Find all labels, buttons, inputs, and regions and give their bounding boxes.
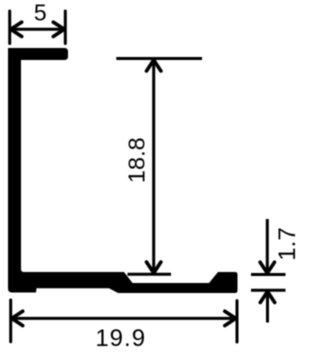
dim 1.7: bottom extension line	[251, 289, 286, 292]
dim 19.9: right extension line	[236, 301, 239, 342]
dim 18.8: top reference line	[116, 57, 202, 60]
dim 19.9: left extension line	[9, 300, 12, 342]
dim 5: dimension line	[11, 28, 65, 31]
dim 19.9: dimension line	[12, 317, 237, 320]
dim 1.7: lower arrowhead	[260, 292, 274, 303]
dim 5: left arrowhead	[11, 22, 22, 36]
svg-text:18.8: 18.8	[124, 137, 150, 183]
svg-text:5: 5	[34, 0, 47, 26]
svg-text:1.7: 1.7	[274, 227, 299, 260]
dim 19.9: right arrowhead	[225, 311, 236, 325]
dim 5: left extension line	[8, 11, 11, 44]
dim 1.7: upper arrowhead	[260, 262, 274, 273]
dim 18.8: top arrowhead	[147, 60, 161, 71]
dim 5: right extension line	[64, 11, 67, 44]
dim 18.8: bottom arrowhead	[147, 262, 161, 273]
dim 5: right arrowhead	[53, 22, 64, 36]
dim 19.9: left arrowhead	[12, 311, 23, 325]
dim 18.8: bottom extension line	[128, 273, 172, 276]
dim 1.7: lower arrow line	[266, 292, 269, 323]
svg-text:19.9: 19.9	[95, 325, 146, 352]
dim 1.7: top extension line	[251, 273, 286, 276]
profile cross-section outline	[8, 48, 238, 293]
dim 18.8: vertical dimension line	[152, 60, 155, 273]
dim 1.7: upper arrow line	[266, 219, 269, 273]
